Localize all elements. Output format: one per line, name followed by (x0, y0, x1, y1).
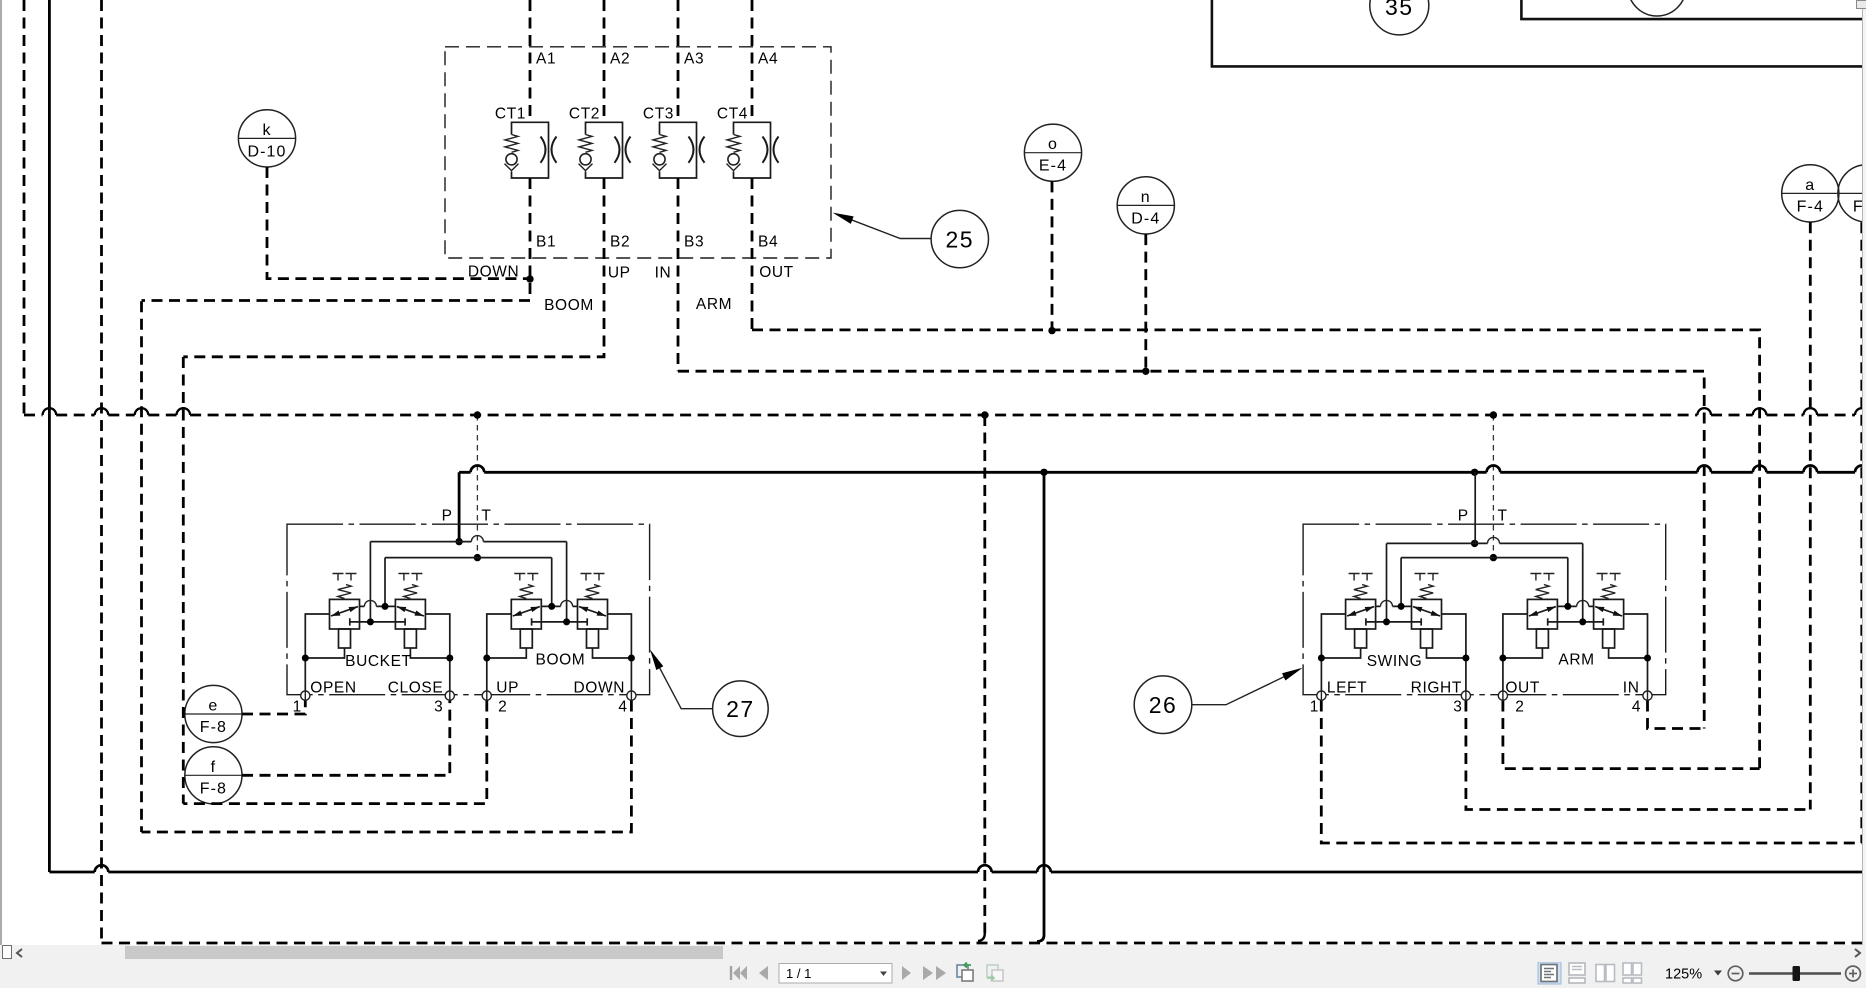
balloon 35 (1370, 0, 1429, 35)
proportional solenoid valve CLOSE (395, 574, 425, 649)
wire e/F-8 to connector 1 (242, 701, 305, 715)
svg-text:a: a (1805, 177, 1815, 194)
wire right connector 1 to right edge bubble (1321, 701, 1862, 844)
svg-text:e: e (208, 698, 218, 715)
bus line 1: OUT net (B4 to o/E-4 to ARM OUT) (752, 330, 1760, 769)
svg-text:CT3: CT3 (643, 105, 674, 122)
pair bridge line (B) (350, 621, 405, 623)
junction dots (526, 275, 533, 282)
P branch line (370, 541, 566, 543)
balloon 27 with leader arrow (650, 650, 768, 737)
svg-text:3: 3 (434, 698, 443, 715)
svg-text:B1: B1 (536, 234, 556, 251)
svg-text:3: 3 (1453, 698, 1462, 715)
svg-text:P: P (1458, 508, 1469, 525)
balloon 25 with leader arrow (833, 210, 989, 267)
solid pressure bus with P drop (left manifold) (458, 472, 461, 541)
pair bridge line (B) (1548, 621, 1604, 623)
svg-text:A1: A1 (536, 51, 556, 68)
svg-text:BOOM: BOOM (544, 297, 594, 314)
connector bubble e/F-8 (185, 685, 242, 742)
connector bubble a/F-4 (1782, 165, 1839, 222)
valve port and solenoid wires (1321, 614, 1360, 696)
connector bubble o/E-4 (1024, 124, 1081, 181)
connector terminals (301, 691, 310, 700)
T drop left manifold (thin dashed) (476, 415, 478, 558)
wire: k bubble drop (267, 167, 530, 279)
wire: B2 UP route vertical x=183.3 (182, 357, 185, 804)
dashed vertical drop x=984.8 (983, 415, 986, 933)
pair bridge line (A) (541, 605, 577, 607)
component outline box (top right) (1212, 0, 1866, 66)
svg-text:UP: UP (496, 679, 519, 696)
balloon 26 with leader arrow (1134, 668, 1302, 734)
wire right connector 3 to a/F-4 (1466, 701, 1810, 810)
proportional solenoid valve RIGHT (1412, 574, 1442, 649)
T branch line (1401, 557, 1568, 559)
proportional solenoid valve IN (1594, 574, 1624, 649)
svg-text:D-10: D-10 (247, 143, 286, 160)
svg-text:T: T (481, 508, 491, 525)
svg-text:ARM: ARM (696, 296, 732, 313)
svg-text:B3: B3 (684, 234, 704, 251)
CT throttle valve CT3 (653, 122, 705, 178)
svg-text:A4: A4 (758, 51, 778, 68)
svg-text:OUT: OUT (759, 264, 794, 281)
connector bubble k/D-10 (238, 110, 295, 167)
wire: solid vertical main line (48, 0, 51, 872)
wire right-edge bubble drop to SWING LEFT (1860, 222, 1863, 843)
wire A4/B4 (751, 0, 754, 330)
proportional solenoid valve DOWN (578, 574, 608, 649)
svg-text:BOOM: BOOM (536, 652, 586, 669)
svg-text:IN: IN (655, 264, 672, 281)
svg-text:4: 4 (1632, 698, 1641, 715)
svg-text:2: 2 (1515, 698, 1524, 715)
pair bridge line (B) (532, 621, 588, 623)
connector bubble f/F-8 (185, 747, 242, 804)
wire A2/B2 (183, 0, 604, 357)
bottom dashed enclosure line (102, 942, 1866, 945)
svg-text:OUT: OUT (1505, 679, 1540, 696)
wire o/E-4 drop (1051, 181, 1054, 330)
svg-text:125%: 125% (1665, 967, 1702, 983)
wire a/F-4 drop to SWING RIGHT (1809, 222, 1812, 809)
CT throttle valve CT2 (579, 122, 631, 178)
svg-text:UP: UP (608, 265, 631, 282)
svg-text:27: 27 (726, 696, 755, 722)
P branch line (1387, 542, 1583, 544)
svg-text:A2: A2 (610, 51, 630, 68)
CT throttle valve CT4 (727, 122, 779, 178)
manifold enclosure (dash-dot box) (1303, 524, 1666, 695)
svg-text:B4: B4 (758, 234, 778, 251)
proportional solenoid valve UP (511, 574, 541, 649)
P drop (thin) (1474, 472, 1476, 543)
wire A1/B1 (142, 0, 531, 301)
svg-text:RIGHT: RIGHT (1411, 679, 1462, 696)
svg-text:1: 1 (1310, 698, 1319, 715)
svg-text:CT1: CT1 (495, 105, 526, 122)
svg-text:D-4: D-4 (1131, 210, 1160, 227)
svg-text:4: 4 (618, 698, 627, 715)
wire: dashed vertical x=101.5 (100, 0, 103, 943)
wire: B1 DOWN route vertical x=141.5 (140, 301, 143, 832)
svg-text:1: 1 (293, 698, 302, 715)
wire right connector 2 to OUT net (1503, 701, 1760, 769)
proportional solenoid valve LEFT (1346, 574, 1376, 649)
svg-text:2: 2 (498, 698, 507, 715)
svg-text:n: n (1141, 189, 1151, 206)
connector terminals (1317, 691, 1326, 700)
pair bridge line (A) (360, 605, 396, 607)
wire right connector 4 to IN net (1648, 701, 1705, 729)
wire f/F-8 to connector 3 (242, 701, 450, 776)
svg-text:IN: IN (1623, 679, 1640, 696)
svg-text:P: P (442, 508, 453, 525)
bottom solid bus (49, 871, 1866, 874)
svg-text:CT2: CT2 (569, 105, 600, 122)
inner box (top right) (1521, 0, 1862, 19)
manifold enclosure (dash-dot box) (287, 524, 650, 695)
CT block enclosure box (445, 47, 831, 258)
pair bridge line (A) (1557, 605, 1593, 607)
T drop right manifold (thin dashed) (1492, 415, 1494, 558)
P/T drop wires into valve pairs (369, 542, 371, 622)
connector bubble n/D-4 (1117, 177, 1174, 234)
svg-text:F-8: F-8 (200, 780, 227, 797)
svg-text:CLOSE: CLOSE (388, 679, 444, 696)
wire connector 4 to DOWN route (142, 701, 632, 833)
svg-text:1 / 1: 1 / 1 (786, 966, 811, 981)
svg-text:T: T (1497, 508, 1507, 525)
svg-text:E-4: E-4 (1039, 158, 1067, 175)
proportional solenoid valve OUT (1527, 574, 1557, 649)
svg-text:k: k (262, 122, 271, 139)
svg-text:BUCKET: BUCKET (345, 653, 411, 670)
svg-text:CT4: CT4 (717, 105, 748, 122)
connector bubble (partial, right edge) (1838, 165, 1866, 222)
svg-text:LEFT: LEFT (1327, 679, 1367, 696)
bus line 3: tank return net (24, 414, 1866, 417)
CT throttle valve CT1 (505, 122, 557, 178)
T branch line (385, 557, 552, 559)
proportional solenoid valve OPEN (330, 574, 360, 649)
svg-text:DOWN: DOWN (574, 679, 625, 696)
bus line 2: IN net (B3 to n/D-4 to ARM IN) (678, 371, 1704, 728)
circle inside inner box (1628, 0, 1686, 16)
svg-text:25: 25 (946, 227, 975, 253)
svg-text:A3: A3 (684, 51, 704, 68)
svg-text:B2: B2 (610, 234, 630, 251)
svg-text:o: o (1048, 136, 1058, 153)
svg-text:OPEN: OPEN (310, 679, 356, 696)
svg-text:26: 26 (1149, 692, 1178, 718)
wire: left border dashed vertical (23, 0, 26, 415)
wire A3/B3 (677, 0, 680, 371)
solid vertical drop x=1044 (1037, 472, 1044, 941)
svg-text:F-8: F-8 (200, 719, 227, 736)
pair bridge line (A) (1376, 605, 1412, 607)
pair bridge line (B) (1366, 621, 1421, 623)
svg-text:F-4: F-4 (1797, 198, 1824, 215)
valve port and solenoid wires (305, 614, 344, 696)
svg-text:ARM: ARM (1558, 652, 1594, 669)
wire connector 2 to UP route (183, 701, 487, 804)
wire n/D-4 drop (1144, 234, 1147, 371)
svg-text:SWING: SWING (1367, 653, 1423, 670)
P/T drop wires into valve pairs (1386, 543, 1388, 622)
svg-text:f: f (211, 759, 217, 776)
svg-text:35: 35 (1385, 0, 1414, 20)
